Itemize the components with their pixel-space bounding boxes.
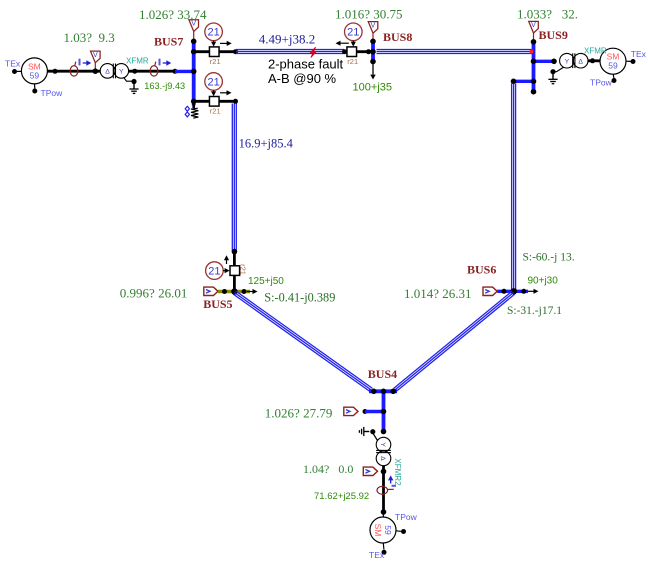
svg-text:XFMR2: XFMR2 (393, 458, 402, 486)
svg-text:1.033? 32.: 1.033? 32. (517, 7, 578, 22)
node (370, 59, 376, 65)
transformer XFMR (Y-delta, BUS9) (560, 53, 575, 68)
voltmeter V (BUS7) (189, 20, 199, 32)
generator SM 59 (G2, top-left) (12, 58, 47, 94)
svg-text:4.49+j38.2: 4.49+j38.2 (259, 32, 315, 47)
node (233, 49, 238, 54)
svg-text:BUS7: BUS7 (154, 35, 183, 49)
wire (blue stub to BUS7) (175, 70, 194, 73)
relay 21 circle (345, 23, 363, 41)
node (191, 49, 197, 55)
svg-text:90+j30: 90+j30 (528, 276, 559, 287)
voltmeter V (BUS8) (368, 22, 378, 34)
node (370, 49, 376, 55)
wire transmission line BUS5-BUS4 (236, 291, 373, 389)
voltmeter pentagon (BUS6) (483, 287, 497, 295)
node (233, 99, 238, 104)
ground (XFMR2 neutral) (364, 431, 370, 433)
generator SM 59 (G1, bottom) (382, 512, 384, 517)
svg-text:BUS4: BUS4 (368, 367, 397, 381)
wire BUS7 to relay r21 (line 7-5) (194, 100, 236, 103)
svg-text:21: 21 (208, 265, 220, 277)
node (222, 289, 227, 294)
wire transmission line BUS7-BUS5 (231, 104, 233, 251)
node (191, 39, 197, 45)
node (381, 509, 387, 515)
svg-text:59: 59 (608, 61, 618, 71)
svg-text:Δ: Δ (379, 456, 386, 461)
wire transmission line BUS9-BUS6 (511, 84, 513, 290)
fault location mark (red) (530, 50, 533, 53)
node (381, 469, 387, 475)
svg-text:Y: Y (119, 69, 124, 76)
svg-text:1.016? 30.75: 1.016? 30.75 (335, 7, 403, 22)
svg-text:r21: r21 (347, 57, 358, 66)
svg-text:125+j50: 125+j50 (248, 276, 284, 287)
relay r21 (BUS7 line 7-8) (209, 47, 219, 57)
node (173, 69, 178, 74)
relay 21 circle (205, 73, 223, 91)
node (191, 99, 197, 105)
svg-text:XFMR: XFMR (126, 57, 149, 66)
node (390, 389, 396, 395)
svg-text:V: V (531, 22, 536, 29)
svg-text:163.-j9.43: 163.-j9.43 (144, 81, 185, 91)
svg-text:21: 21 (347, 27, 359, 39)
svg-text:Δ: Δ (105, 69, 110, 76)
relay r21 (BUS5 line 7-5) (230, 266, 240, 276)
wire G2 to XFMR (47, 70, 101, 73)
relay r21 (BUS7 line 7-5) (209, 97, 219, 107)
arrow (flow left) (340, 42, 349, 44)
node (191, 69, 197, 75)
wire BUS7 to relay r21 (line 7-8) (194, 50, 236, 53)
node (242, 289, 247, 294)
ground (XFMR neutral) (124, 77, 132, 81)
node (53, 69, 58, 74)
node (371, 389, 377, 395)
node (366, 49, 371, 54)
bus BUS8 (371, 40, 375, 64)
wire BUS9 lower stub (514, 80, 534, 83)
svg-text:BUS9: BUS9 (539, 28, 568, 42)
svg-text:21: 21 (207, 27, 219, 39)
bus BUS9 (532, 40, 536, 92)
wire BUS9 to XFMR (blue stub) (534, 60, 555, 63)
node (370, 39, 376, 45)
arrow (21 to relay) (352, 41, 354, 43)
svg-text:71.62+j25.92: 71.62+j25.92 (314, 491, 369, 502)
svg-text:1.014? 26.31: 1.014? 26.31 (404, 286, 472, 301)
voltmeter pentagon (BUS4) (344, 407, 358, 415)
wire transmission line BUS7-BUS8 (236, 49, 344, 51)
voltmeter pentagon (BUS5) (204, 287, 218, 295)
svg-text:Y: Y (565, 59, 570, 66)
load arrow 125+j50 (247, 291, 254, 293)
node (531, 89, 537, 95)
transformer XFMR (delta-Y) (100, 64, 115, 79)
node (521, 289, 526, 294)
node (531, 39, 537, 45)
svg-text:59: 59 (30, 70, 40, 80)
svg-text:r21: r21 (210, 107, 221, 116)
svg-text:A-B @90 %: A-B @90 % (268, 71, 337, 86)
relay 21 circle (205, 23, 223, 41)
bus BUS5 (olive) (218, 290, 250, 294)
svg-text:V: V (371, 22, 376, 29)
voltmeter V (G2 terminal) (91, 51, 101, 63)
svg-text:S:-0.41-j0.389: S:-0.41-j0.389 (264, 291, 335, 305)
svg-text:1.026? 27.79: 1.026? 27.79 (265, 406, 333, 421)
svg-text:TPow: TPow (395, 512, 418, 522)
current meter I (G1) (377, 486, 388, 494)
node (342, 49, 347, 54)
bus BUS4 vertical (382, 391, 386, 429)
svg-text:TEx: TEx (369, 550, 385, 560)
bus BUS4 horizontal (369, 389, 397, 393)
bus BUS7 (192, 40, 196, 106)
node (381, 409, 387, 415)
node (590, 58, 595, 63)
wire transmission line BUS8-BUS9 (377, 49, 532, 51)
svg-text:16.9+j85.4: 16.9+j85.4 (239, 137, 294, 151)
arrow (flow right) (220, 42, 228, 44)
svg-text:SM: SM (373, 524, 383, 537)
svg-text:TPow: TPow (41, 88, 64, 98)
node (551, 59, 557, 65)
node (511, 79, 517, 85)
current meter I (G2) (70, 66, 78, 76)
node (363, 409, 368, 414)
svg-text:V: V (93, 52, 98, 59)
svg-text:59: 59 (383, 525, 393, 535)
svg-text:Δ: Δ (578, 59, 583, 66)
arrow (21 to relay) (213, 41, 215, 43)
svg-text:r21: r21 (239, 264, 248, 275)
svg-text:21: 21 (207, 76, 219, 88)
svg-text:Y: Y (379, 442, 386, 447)
fault bolt (311, 47, 317, 57)
arrow (21 to relay) (213, 90, 215, 92)
current meter I (into BUS7) (150, 66, 158, 76)
relay r21 (BUS8 line 7-8) (347, 47, 357, 57)
node (132, 69, 137, 74)
node (531, 79, 537, 85)
node (232, 249, 238, 255)
svg-text:V: V (191, 21, 196, 28)
arrow (flow up) (226, 259, 228, 264)
load arrow 90+j30 (528, 290, 535, 292)
wire stub (BUS4 voltmeter) (365, 410, 384, 413)
svg-text:S:-60.-j 13.: S:-60.-j 13. (523, 252, 575, 264)
wire transmission line BUS6-BUS4 (396, 294, 515, 392)
transformer XFMR2 (Y-delta vertical) (376, 437, 391, 452)
wire XFMR2 to G1 (382, 466, 385, 512)
svg-text:BUS6: BUS6 (467, 263, 496, 277)
svg-text:BUS8: BUS8 (383, 30, 412, 44)
wire XFMR to BUS7 (128, 70, 176, 73)
voltmeter V (BUS9) (529, 21, 539, 33)
wire XFMR to G3 (588, 59, 601, 62)
node (531, 59, 537, 65)
svg-text:0.996? 26.01: 0.996? 26.01 (120, 286, 188, 301)
arrester / ground at BUS7 bottom (192, 103, 195, 108)
node (381, 429, 387, 435)
svg-text:1.03? 9.3: 1.03? 9.3 (64, 30, 115, 45)
svg-text:r21: r21 (210, 57, 221, 66)
svg-text:1.04? 0.0: 1.04? 0.0 (303, 462, 353, 476)
load arrow 100+j35 (372, 64, 374, 75)
node (511, 288, 517, 294)
svg-text:TEx: TEx (5, 59, 21, 69)
wire relay to BUS5 (233, 252, 236, 292)
node (502, 289, 507, 294)
svg-text:2-phase fault: 2-phase fault (268, 56, 344, 71)
bus BUS6 (497, 290, 528, 293)
svg-text:BUS5: BUS5 (203, 297, 232, 311)
node (381, 389, 387, 395)
ground (XFMR neutral, BUS9) (556, 67, 564, 72)
arrow (flow right) (220, 92, 228, 94)
svg-text:XFMR: XFMR (584, 47, 607, 56)
arrow (21 to relay) (223, 270, 225, 272)
node (93, 68, 99, 74)
svg-text:S:-31.-j17.1: S:-31.-j17.1 (507, 305, 562, 317)
wire relay to BUS8 (347, 50, 373, 53)
relay 21 circle (206, 262, 224, 280)
svg-text:TPow: TPow (590, 77, 613, 87)
generator SM 59 (G3, top-right) (600, 48, 626, 74)
svg-text:TEx: TEx (631, 49, 647, 59)
svg-text:100+j35: 100+j35 (353, 82, 392, 94)
node (231, 288, 237, 294)
voltmeter pentagon (G1 terminal) (363, 467, 377, 475)
